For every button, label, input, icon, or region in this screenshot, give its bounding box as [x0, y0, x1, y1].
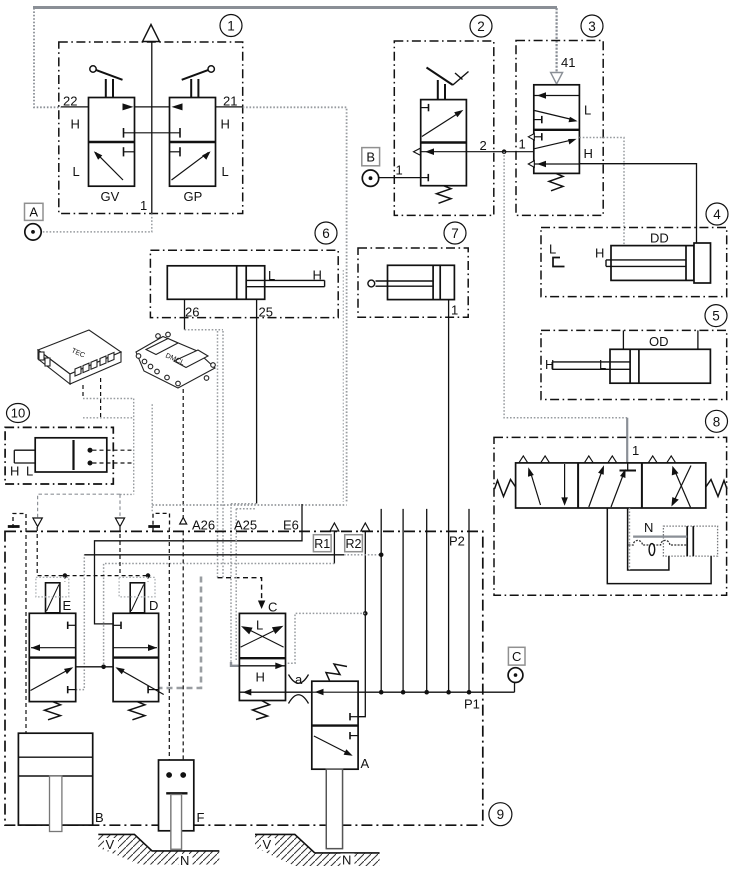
wire port1 through block (gray): [629, 508, 631, 570]
svg-text:7: 7: [451, 226, 459, 241]
valve V3 body: [534, 85, 580, 174]
svg-text:E6: E6: [283, 518, 299, 533]
assembly box 2 border: [394, 41, 494, 215]
junction node R2 branch: [363, 611, 368, 616]
svg-text:N: N: [342, 853, 351, 868]
wire cyl7 port1 to P1: [448, 300, 450, 693]
label V right: [261, 837, 275, 852]
valve A spring: [326, 664, 347, 681]
svg-text:5: 5: [712, 309, 720, 324]
svg-text:B: B: [95, 810, 104, 825]
wire solenoid E feed (dashed): [37, 527, 148, 576]
pressure point B circle: [362, 170, 378, 186]
wire port 25: [256, 299, 258, 503]
port stub GV right: [124, 147, 135, 156]
junction nodes P1: [379, 690, 471, 695]
spring V8 right: [706, 480, 727, 497]
connector triangle up A26: [180, 518, 187, 525]
wire stub OD left: [622, 330, 624, 349]
vent arrow 41 (open gray arrowhead): [551, 73, 563, 85]
wire port21 pair line: [342, 270, 344, 502]
connector triangle down x120: [115, 494, 124, 575]
lever valve 2: [427, 68, 469, 100]
pressure point A box: [25, 203, 44, 220]
svg-text:C: C: [512, 649, 521, 664]
wire box8 port1 drop (gray solid): [626, 418, 628, 463]
svg-text:10: 10: [11, 406, 25, 421]
lever GP: [182, 66, 215, 98]
assembly box 10 border: [5, 427, 113, 484]
svg-text:H: H: [595, 246, 604, 261]
solenoid D connector outline (gray): [119, 577, 155, 597]
wire supply top horizontal: [33, 6, 557, 9]
svg-text:DD: DD: [650, 231, 669, 246]
junction node E-D: [101, 665, 106, 670]
ground terrain right: [255, 834, 380, 866]
balloon 2: [470, 15, 492, 37]
svg-text:L: L: [599, 357, 606, 372]
wire P1 manifold: [239, 691, 514, 693]
assembly box 9 border: [5, 531, 483, 825]
wire C pilot dashed: [218, 578, 262, 601]
pressure point C box: [508, 647, 525, 665]
svg-text:C: C: [268, 600, 277, 615]
wire port21 gray continuation: [243, 107, 347, 503]
wire supply right drop to port 41: [555, 8, 557, 72]
svg-text:22: 22: [63, 94, 77, 109]
wire harness vertical x133: [133, 399, 135, 495]
connector triangle up R2: [361, 523, 370, 531]
wire valve3 L-port to DD (gray): [579, 138, 624, 246]
wire V8 to detent inner: [628, 508, 669, 570]
exhaust triangle valve3 upper: [528, 134, 534, 141]
svg-text:L: L: [26, 464, 33, 479]
svg-text:6: 6: [322, 226, 330, 241]
wire R1 drop black: [333, 531, 335, 563]
wire A26 to sensor F (dashed): [182, 531, 184, 771]
wire port 1 valve2: [379, 177, 421, 179]
exhaust triangle valve3 lower: [528, 161, 534, 168]
connector triangle up R1: [330, 523, 339, 531]
svg-text:OD: OD: [649, 334, 669, 349]
svg-text:2: 2: [480, 138, 487, 153]
label N left: [179, 853, 193, 868]
svg-text:1: 1: [227, 19, 235, 34]
pressure point A circle: [25, 224, 41, 240]
port label box R2: [345, 535, 363, 552]
balloon 1: [220, 15, 242, 37]
wire D thick gray dashed: [159, 577, 201, 689]
balloon 6: [315, 222, 337, 244]
wire center line port 1: [151, 42, 153, 214]
svg-text:N: N: [180, 853, 189, 868]
actuator rod valve A: [326, 769, 342, 848]
label L stop DD: [549, 242, 565, 267]
bus line 2: [402, 509, 404, 692]
crossover bridge a: [289, 675, 309, 704]
spring valve 2: [437, 186, 452, 204]
svg-text:1: 1: [451, 303, 458, 318]
valve C body: [239, 613, 285, 700]
wire port25 jog gray upper: [231, 503, 257, 505]
connector triangle down x37: [33, 494, 120, 526]
wire port1 to point A: [42, 214, 152, 232]
wire junction2 to box8 port1 (gray): [504, 152, 627, 418]
valve D body: [113, 613, 164, 701]
svg-text:L: L: [268, 268, 275, 283]
cylinder DD: [606, 243, 711, 283]
wire A26 channel right line: [222, 331, 224, 578]
svg-text:D: D: [149, 598, 158, 613]
wire ground-mid to sensor F (dashed): [168, 528, 170, 771]
svg-text:9: 9: [497, 807, 505, 822]
svg-text:4: 4: [713, 207, 721, 222]
ECU module DMCL: [136, 332, 215, 388]
balloon 9: [489, 803, 512, 826]
svg-text:A25: A25: [234, 518, 257, 533]
V8 left cell arrows: [528, 464, 568, 506]
assembly box 3 border: [516, 41, 603, 216]
sensor rod F: [171, 795, 182, 850]
wire harness corner to triangle: [120, 493, 134, 495]
bus line 1: [380, 509, 382, 692]
svg-text:H: H: [221, 117, 230, 132]
wire valve3 H-port to DD cap (black): [579, 164, 696, 245]
svg-text:2: 2: [477, 19, 485, 34]
wire supply left drop to port 22: [34, 8, 61, 107]
cylinder B: [18, 733, 92, 825]
wire harness gray b: [83, 417, 134, 419]
label V left: [104, 837, 118, 852]
wire ground-left to cylinder B (dashed): [25, 528, 27, 733]
wire port25 jog gray lower: [236, 508, 256, 510]
svg-text:H: H: [545, 357, 554, 372]
assembly box 6 border: [150, 250, 338, 317]
cylinder C10: [14, 438, 107, 472]
wire sensor dot upper (dashed): [93, 449, 134, 451]
svg-text:A: A: [29, 205, 38, 220]
vent marks V8 top: [519, 456, 676, 463]
wire sensor dot lower (dashed): [93, 462, 134, 464]
valve GV body: [89, 98, 135, 187]
valve E solenoid: [46, 583, 60, 613]
svg-text:1: 1: [140, 198, 147, 213]
wire R2 drop black to valve A pilot: [358, 531, 365, 716]
svg-text:P2: P2: [449, 534, 465, 549]
pressure point B box: [362, 148, 380, 166]
wire TEC pin a (dashed): [82, 385, 84, 399]
svg-text:8: 8: [713, 414, 721, 429]
svg-text:V: V: [263, 837, 272, 852]
svg-text:L: L: [549, 242, 556, 257]
wire A26 channel left line: [217, 331, 219, 578]
balloon 7: [444, 222, 466, 244]
valve A body: [312, 681, 358, 769]
sensor rod F (over ground): [171, 795, 182, 850]
valve V2 body: [421, 100, 467, 186]
svg-text:L: L: [256, 618, 263, 633]
wire stub OD right: [697, 330, 699, 349]
exhaust triangle valve2 left: [414, 148, 421, 155]
ground symbol mid: [148, 513, 169, 531]
wire A25 channel right line: [235, 509, 237, 661]
wire harness vertical x152: [151, 404, 153, 513]
svg-text:N: N: [644, 520, 653, 535]
wire E6 drop and inside black: [95, 504, 303, 624]
svg-text:L: L: [584, 103, 591, 118]
cylinder C7: [368, 265, 455, 299]
assembly box 8 border: [494, 437, 727, 595]
wire port 22-21 horizontal: [61, 106, 243, 108]
wire E lower tick to bus (gray rise): [76, 555, 85, 690]
ground terrain left: [98, 834, 219, 864]
wire A25 elbow to valve C (gray solid): [231, 662, 239, 666]
bus line 4: [468, 509, 470, 692]
sensor F body: [159, 760, 194, 831]
wire port26 jog gray: [185, 329, 224, 331]
detent bar N: [629, 537, 688, 556]
arrow P1 into valve C: [243, 689, 252, 696]
cylinder C6: [167, 266, 324, 300]
wire to solenoid D top: [147, 576, 149, 582]
spring valve 3: [549, 173, 563, 190]
junction node bus1 upper: [379, 553, 384, 558]
svg-text:B: B: [366, 150, 375, 165]
port label box R1: [313, 535, 331, 552]
svg-text:R1: R1: [314, 537, 330, 551]
pressure point C circle: [508, 668, 523, 683]
cylinder OD: [552, 349, 710, 383]
spring valve D: [129, 702, 145, 720]
svg-text:L: L: [73, 164, 80, 179]
actuator rod valve A (over ground): [326, 769, 342, 848]
svg-text:V: V: [106, 837, 115, 852]
wire R2 branch to valve C right (gray): [286, 613, 366, 663]
svg-text:1: 1: [396, 163, 403, 178]
bus line 3: [426, 509, 428, 692]
lever GV: [90, 66, 123, 98]
solenoid E connector outline (gray): [36, 577, 69, 597]
wire port 26: [184, 299, 186, 329]
wire harness gray a: [83, 398, 134, 400]
arrow C pilot: [258, 601, 265, 610]
svg-text:R2: R2: [346, 537, 362, 551]
labels box1: [63, 94, 237, 214]
V8 right cell crossed arrows: [671, 466, 691, 508]
svg-text:3: 3: [588, 19, 596, 34]
svg-text:L: L: [222, 164, 229, 179]
svg-text:GP: GP: [184, 189, 203, 204]
svg-text:H: H: [71, 117, 80, 132]
junction node solenoid D: [146, 573, 151, 578]
valve block V8 body: [516, 463, 706, 508]
svg-text:25: 25: [259, 305, 273, 320]
vent triangle box1: [143, 25, 160, 42]
svg-text:21: 21: [223, 94, 237, 109]
svg-text:A: A: [361, 756, 370, 771]
valve E body: [29, 613, 75, 701]
svg-text:H: H: [313, 268, 322, 283]
wire port 2 valve2 to valve3: [466, 151, 533, 153]
wire DMCL pin A26 (dashed): [182, 389, 184, 518]
balloon 5: [705, 305, 727, 327]
wire E-D connector: [76, 666, 113, 668]
spring valve C: [253, 701, 270, 720]
assembly box 5 border: [541, 330, 727, 399]
valve GP body: [170, 98, 216, 187]
spring valve E: [45, 702, 61, 720]
piston rod cylinder B: [50, 776, 62, 832]
balloon 3: [581, 15, 603, 37]
svg-text:H: H: [10, 464, 19, 479]
balloon 8: [706, 410, 728, 432]
wire to solenoid E top: [64, 576, 66, 582]
V8 middle cell arrows and blocked port 1: [589, 463, 636, 507]
assembly box 1 border: [59, 42, 243, 214]
svg-text:GV: GV: [101, 189, 120, 204]
valve D solenoid: [130, 583, 144, 613]
svg-text:26: 26: [185, 305, 199, 320]
spring V8 left: [495, 480, 516, 497]
svg-text:F: F: [197, 810, 205, 825]
wire P1 to point C: [514, 683, 516, 692]
junction node port2: [502, 149, 507, 154]
svg-text:1: 1: [519, 137, 526, 152]
svg-text:P1: P1: [464, 697, 480, 712]
svg-text:41: 41: [561, 55, 575, 70]
ECU module TEC: [38, 330, 121, 384]
junction node solenoid E: [63, 573, 68, 578]
svg-text:H: H: [256, 670, 265, 685]
ground symbol left: [8, 514, 26, 529]
wire TEC pin b (dashed): [100, 378, 102, 418]
svg-text:a: a: [295, 672, 303, 687]
svg-text:E: E: [63, 598, 72, 613]
label N right: [341, 853, 355, 868]
balloon 4: [706, 203, 728, 225]
wire cross connector GV-GP: [124, 128, 181, 138]
assembly box 4 border: [541, 228, 727, 297]
wire E tick bus horizontal black: [84, 554, 344, 556]
wire R1 gray to E-D node: [104, 564, 335, 667]
wire V8 to detent outer: [607, 508, 711, 584]
wire bundle horizontal y505: [152, 504, 346, 506]
assembly box 7 border: [358, 248, 468, 317]
svg-text:1: 1: [632, 443, 639, 458]
port stub GP left: [170, 147, 181, 156]
detent cylinder N (gray outline): [663, 526, 717, 556]
svg-text:A26: A26: [192, 518, 215, 533]
balloon 10: [7, 404, 30, 423]
svg-text:H: H: [584, 146, 593, 161]
wire E tick bus horizontal gray tail: [344, 554, 381, 556]
wire A25 channel left line: [230, 504, 232, 666]
